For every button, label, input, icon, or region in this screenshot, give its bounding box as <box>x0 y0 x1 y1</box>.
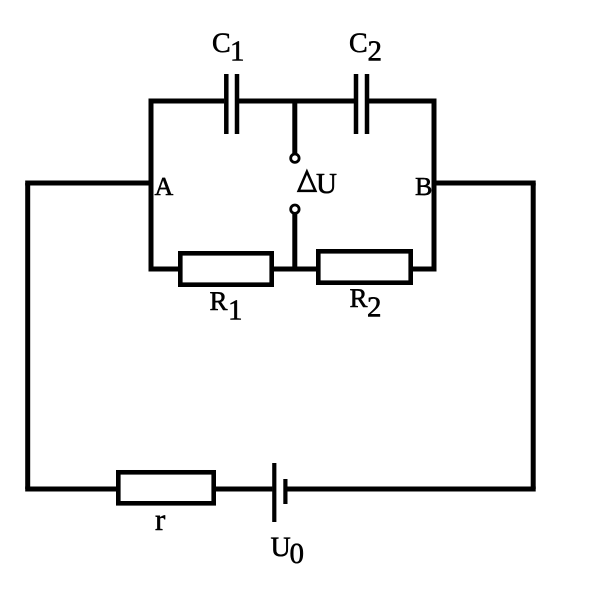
wire inner-right vertical (node B branch) <box>432 101 437 269</box>
wire upper probe stub <box>292 101 297 154</box>
label R1 <box>210 292 240 319</box>
resistor r <box>118 472 213 503</box>
terminal lower circle of ΔU probe <box>291 205 299 213</box>
wire bottom-middle segment <box>215 487 272 492</box>
resistor R2 <box>318 251 410 282</box>
wire top-right segment <box>369 99 437 104</box>
wire bottom-right segment <box>287 487 536 492</box>
wire R-row left segment <box>149 267 181 272</box>
wire node A horizontal <box>25 181 153 186</box>
wire node B horizontal <box>432 181 536 186</box>
wire R-row right segment <box>412 267 437 272</box>
label U0 <box>271 538 303 564</box>
label C1 <box>213 33 243 60</box>
wire R-row middle segment (R1-R2 junction) <box>273 267 317 272</box>
wire top-left segment <box>149 99 225 104</box>
label R2 <box>350 289 380 316</box>
wire bottom-left segment <box>25 487 117 492</box>
terminal upper circle of ΔU probe <box>291 154 299 162</box>
wire outer-right vertical <box>531 183 536 489</box>
battery U0 long plate <box>272 463 276 522</box>
capacitor C2 <box>356 74 367 134</box>
capacitor C1 <box>226 74 237 134</box>
label C2 <box>350 33 380 60</box>
battery U0 short plate <box>283 479 287 504</box>
node A label <box>155 178 173 195</box>
wire lower probe stub <box>292 214 297 270</box>
node B label <box>416 178 431 195</box>
label r <box>156 515 165 530</box>
wire top-middle segment <box>239 99 354 104</box>
resistor R1 <box>180 253 271 284</box>
label ΔU <box>299 172 316 191</box>
wire outer-left vertical <box>25 183 30 489</box>
wire inner-left vertical (node A branch) <box>149 101 154 269</box>
